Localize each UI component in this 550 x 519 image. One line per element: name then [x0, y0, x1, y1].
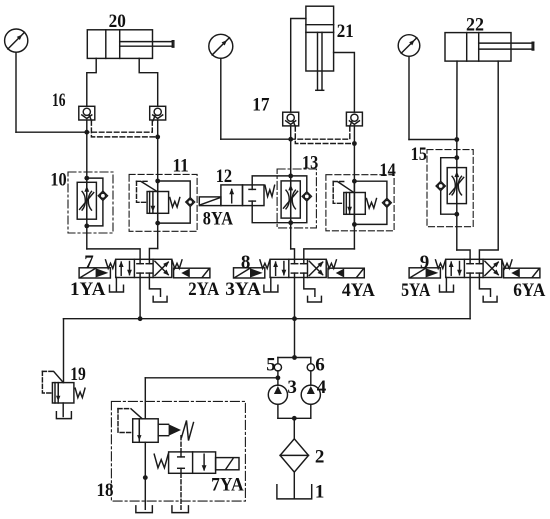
wire filter to tank	[293, 472, 295, 498]
junction dot 18 drain	[143, 475, 148, 480]
junction dot gauge3	[454, 137, 459, 142]
pilot valve 7YA spring	[154, 454, 168, 468]
directional valve 7 T-port drain	[149, 278, 160, 297]
junction dot valve8 P	[292, 316, 297, 321]
wire node5 to pump3	[277, 371, 279, 385]
relief 18 drain	[144, 442, 146, 509]
directional valve 8 right spring	[326, 260, 336, 269]
svg-text:15: 15	[411, 144, 427, 165]
wire valve9 P to supply	[469, 278, 471, 319]
wire pumps to filter	[277, 404, 279, 418]
svg-text:12: 12	[216, 166, 232, 187]
directional valve 9 left spring	[436, 260, 446, 269]
sequence valve 11 pilot line	[137, 180, 150, 182]
wire supply to relief 19	[63, 319, 65, 383]
wire gauge-middle to node	[220, 58, 222, 139]
wire line B2 (x=354.4)	[353, 126, 355, 249]
wire valve12 bottom to line A2	[252, 206, 291, 223]
speed control valve 13 enclosure	[277, 169, 316, 228]
pressure gauge (left)	[5, 29, 28, 52]
wire pump split	[278, 357, 311, 359]
svg-text:21: 21	[337, 21, 354, 42]
wire 18 inlet	[144, 378, 146, 419]
relief valve 19 spring	[75, 388, 85, 397]
valve 12 blocked ports	[251, 185, 253, 190]
directional valve 8 left spring	[260, 260, 270, 269]
svg-text:4YA: 4YA	[342, 280, 375, 301]
svg-text:22: 22	[466, 15, 484, 36]
speed control valve 13 check valve	[302, 192, 311, 201]
wire gauge-right to node	[408, 56, 410, 139]
wire main supply line	[64, 318, 471, 320]
speed control valve 15 throttle	[447, 168, 466, 204]
speed control valve 10 check valve	[98, 191, 107, 200]
svg-text:8YA: 8YA	[203, 208, 233, 229]
directional valve 7 left position arrows	[120, 262, 122, 275]
relief valve 19 pilot line	[42, 370, 53, 372]
speed control valve 15 bypass wire	[441, 158, 457, 182]
component 18 enclosure	[111, 401, 245, 501]
svg-text:20: 20	[109, 11, 126, 32]
wire A2-line to valve8 A	[291, 249, 295, 259]
svg-text:11: 11	[173, 156, 189, 177]
pilot line 17L from right line	[295, 127, 354, 144]
pilot valve 7YA drain	[180, 473, 182, 509]
wire gauge-left to node	[15, 52, 17, 132]
relief 18 pilot spring	[182, 421, 194, 441]
svg-text:7: 7	[84, 252, 94, 273]
directional valve 8 left solenoid	[234, 268, 265, 278]
directional valve 9 right solenoid	[504, 268, 540, 278]
directional valve 7 right position crossed arrows	[155, 262, 168, 275]
directional valve 9 center blocked ports	[469, 259, 471, 263]
svg-text:1: 1	[315, 481, 325, 502]
wire line A3 (x=456.8)	[456, 140, 458, 251]
svg-text:17: 17	[252, 95, 270, 116]
junction dot	[84, 130, 89, 135]
filter 2	[280, 439, 308, 472]
svg-text:7YA: 7YA	[211, 475, 244, 496]
wire B-line to valve7 B	[149, 249, 157, 260]
svg-text:3: 3	[287, 377, 297, 398]
wire 18 to pump line	[145, 377, 278, 379]
sequence valve 14 pilot line	[333, 181, 346, 183]
relief valve 19 body	[52, 383, 74, 403]
sequence valve 11 enclosure	[129, 174, 197, 231]
speed control valve 10 bottom junction dot	[84, 224, 89, 229]
sequence valve 14 check valve	[383, 198, 392, 207]
sequence valve 14 body	[344, 193, 366, 215]
directional valve 9 body	[446, 259, 502, 277]
sequence valve 14 bottom junction dot	[352, 222, 357, 227]
wire cyl22 left port	[456, 61, 458, 139]
speed control valve 15 bottom junction dot	[454, 212, 459, 217]
directional valve 9 left position arrows	[450, 262, 452, 275]
directional valve 8 T-port drain	[304, 278, 315, 297]
pilot line 17R from left line	[291, 127, 350, 140]
svg-text:13: 13	[302, 153, 318, 174]
cylinder 20	[87, 30, 152, 59]
sequence valve 14 main wire	[353, 181, 355, 224]
directional valve 7 center blocked ports	[139, 259, 141, 263]
svg-text:16: 16	[52, 90, 66, 111]
junction dot	[352, 141, 357, 146]
speed control valve 10 enclosure	[68, 172, 113, 233]
directional valve 8 left position arrows	[275, 262, 277, 275]
svg-text:2YA: 2YA	[188, 279, 219, 300]
node 6	[307, 364, 314, 371]
pilot valve 7YA blocked ports	[180, 452, 182, 457]
pump 3	[268, 385, 287, 404]
directional valve 7 right solenoid	[174, 268, 210, 278]
directional valve 7 left spring	[106, 260, 116, 269]
valve 12 body	[221, 185, 243, 206]
wire cyl21 top port	[291, 19, 306, 113]
wire cyl21 bottom port	[334, 53, 355, 113]
wire A3-line to valve9 A	[457, 250, 470, 259]
directional valve 8 right position crossed arrows	[309, 262, 322, 275]
wire A-line to valve7 A	[87, 249, 140, 259]
junction dot	[155, 135, 160, 140]
speed control valve 13 throttle	[281, 181, 300, 218]
sequence valve 11 main wire	[157, 181, 159, 223]
pilot valve 7YA body	[169, 452, 216, 473]
directional valve 7 body	[116, 259, 172, 277]
pilot check 17 right	[346, 112, 362, 126]
directional valve 8 left solenoid drain	[270, 278, 272, 292]
svg-text:18: 18	[97, 480, 114, 501]
svg-text:5: 5	[266, 354, 276, 375]
relief 18 output channel	[158, 423, 168, 425]
junction dot	[288, 137, 293, 142]
wire valve7 P to supply	[139, 278, 141, 319]
svg-text:19: 19	[70, 364, 86, 385]
speed control valve 10 throttle	[77, 182, 96, 219]
speed control valve 15 check valve	[436, 181, 445, 190]
directional valve 8 body	[270, 259, 326, 277]
svg-text:8: 8	[241, 252, 251, 273]
wire B2-line to valve8 B	[304, 249, 355, 259]
svg-text:14: 14	[380, 160, 397, 181]
relief 18 main body	[133, 419, 159, 443]
pilot line 16L from right line	[91, 121, 157, 137]
directional valve 9 right spring	[502, 260, 512, 269]
pilot valve 7YA top pilot line	[180, 436, 182, 452]
node 5	[274, 364, 281, 371]
relief 18 pilot poppet	[169, 424, 181, 435]
wire valve8 P to supply and pumps	[294, 278, 296, 358]
directional valve 9 right position crossed arrows	[485, 262, 498, 275]
wire line B1 (x=157.7)	[157, 120, 159, 249]
pump 4	[301, 385, 320, 404]
sequence valve 11 spring	[170, 198, 180, 208]
wire valve12 top to line A2	[252, 176, 291, 185]
sequence valve 14 bypass wire	[354, 181, 387, 198]
svg-text:1YA: 1YA	[70, 279, 106, 300]
cylinder 21	[306, 6, 334, 71]
sequence valve 11 bypass wire	[158, 181, 191, 197]
speed control valve 15 top junction dot	[454, 155, 459, 160]
svg-text:6YA: 6YA	[513, 280, 545, 301]
pilot check 16 right	[150, 106, 166, 120]
speed control valve 13 top junction dot	[288, 174, 293, 179]
relief valve 19 drain	[62, 403, 64, 417]
svg-text:2: 2	[315, 447, 325, 468]
svg-text:5YA: 5YA	[401, 280, 431, 301]
wire cyl20 left port	[87, 58, 96, 106]
wire line A2 (x=290.7)	[290, 126, 292, 249]
cylinder 22	[445, 33, 511, 62]
sequence valve 14 enclosure	[326, 175, 394, 231]
svg-text:6: 6	[315, 354, 325, 375]
svg-text:10: 10	[50, 169, 66, 190]
sequence valve 14 spring	[367, 199, 377, 209]
valve 12 flow arrow	[231, 190, 233, 203]
sequence valve 11 body	[147, 192, 169, 214]
sequence valve 11 check valve	[186, 198, 195, 207]
valve 12 solenoid	[199, 197, 221, 206]
speed control valve 10 top junction dot	[84, 176, 89, 181]
tank 1	[277, 485, 312, 499]
valve 12 spring	[265, 185, 275, 196]
pilot line 16R from left line	[87, 121, 153, 133]
junction dot pump split	[292, 355, 297, 360]
junction dot 18-line	[276, 375, 281, 380]
directional valve 8 right solenoid	[328, 268, 364, 278]
sequence valve 11 top junction dot	[155, 179, 160, 184]
wire cyl20 right port	[139, 58, 158, 106]
sequence valve 11 bottom junction dot	[155, 221, 160, 226]
pilot valve 7YA flow arrow	[203, 454, 205, 470]
directional valve 9 left solenoid	[409, 268, 440, 278]
svg-text:4: 4	[317, 377, 327, 398]
pilot valve 7YA solenoid	[216, 458, 239, 470]
wire cyl22 right port	[479, 61, 498, 259]
directional valve 9 T-port drain	[479, 278, 490, 297]
sequence valve 14 top junction dot	[352, 179, 357, 184]
pressure gauge (right)	[398, 35, 420, 57]
junction dot valve7 P	[138, 316, 143, 321]
wire line A1 (x=86.8)	[86, 120, 88, 249]
pressure gauge (middle)	[209, 34, 233, 58]
relief 18 pilot line	[118, 408, 131, 410]
pilot check 16 left	[79, 106, 95, 120]
directional valve 7 right spring	[172, 260, 182, 269]
junction dot pump join	[292, 416, 297, 421]
speed control valve 13 bypass wire	[291, 176, 307, 192]
wire node6 to pump4	[310, 371, 312, 385]
directional valve 9 left solenoid drain	[445, 278, 447, 292]
svg-text:3YA: 3YA	[225, 279, 261, 300]
directional valve 7 left solenoid drain	[115, 278, 117, 292]
pilot check 17 left	[283, 112, 299, 126]
directional valve 7 left solenoid	[79, 268, 110, 278]
svg-text:9: 9	[420, 252, 430, 273]
directional valve 8 center blocked ports	[294, 259, 296, 263]
speed control valve 15 enclosure	[427, 150, 473, 227]
speed control valve 13 bottom junction dot	[288, 220, 293, 225]
speed control valve 10 bypass wire	[87, 178, 103, 191]
